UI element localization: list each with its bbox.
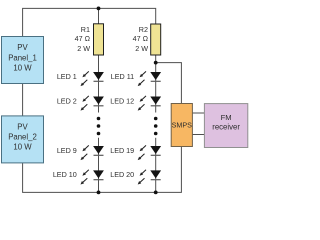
svg-text:10 W: 10 W — [13, 143, 32, 152]
svg-text:LED 11: LED 11 — [111, 72, 134, 81]
svg-text:Panel_2: Panel_2 — [8, 133, 37, 142]
svg-text:LED 20: LED 20 — [110, 170, 134, 179]
svg-text:LED 9: LED 9 — [57, 146, 77, 155]
svg-text:LED 2: LED 2 — [57, 96, 77, 105]
svg-text:PV: PV — [17, 123, 28, 132]
svg-text:47 Ω: 47 Ω — [75, 34, 91, 43]
svg-text:2 W: 2 W — [77, 44, 90, 53]
svg-text:receiver: receiver — [212, 122, 240, 131]
svg-text:R2: R2 — [139, 25, 148, 34]
svg-text:LED 10: LED 10 — [53, 170, 77, 179]
svg-text:FM: FM — [221, 113, 232, 122]
svg-text:47 Ω: 47 Ω — [133, 34, 149, 43]
svg-text:SMPS: SMPS — [172, 121, 193, 130]
svg-text:2 W: 2 W — [135, 44, 148, 53]
svg-text:LED 1: LED 1 — [57, 72, 77, 81]
svg-text:LED 19: LED 19 — [110, 146, 134, 155]
svg-text:LED 12: LED 12 — [110, 96, 134, 105]
svg-text:R1: R1 — [81, 25, 90, 34]
svg-text:Panel_1: Panel_1 — [8, 53, 37, 62]
svg-text:10 W: 10 W — [13, 63, 32, 72]
svg-text:PV: PV — [17, 43, 28, 52]
